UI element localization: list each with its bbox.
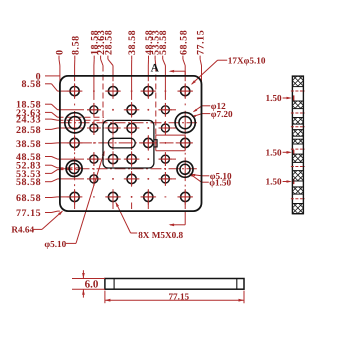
svg-text:17Xφ5.10: 17Xφ5.10 [228, 55, 266, 65]
svg-text:8.58: 8.58 [70, 35, 81, 55]
svg-text:1.50: 1.50 [266, 148, 282, 158]
svg-text:φ7.20: φ7.20 [211, 109, 233, 119]
svg-text:1.50: 1.50 [266, 177, 282, 187]
svg-text:77.15: 77.15 [16, 208, 41, 219]
svg-text:A: A [151, 62, 160, 74]
svg-text:φ1.50: φ1.50 [209, 177, 231, 187]
svg-text:77.15: 77.15 [196, 30, 207, 55]
svg-text:38.58: 38.58 [127, 30, 138, 55]
svg-text:φ5.10: φ5.10 [44, 239, 66, 249]
svg-text:R4.64: R4.64 [11, 225, 34, 235]
svg-text:68.58: 68.58 [178, 30, 189, 55]
svg-text:6.0: 6.0 [85, 278, 99, 290]
svg-text:38.58: 38.58 [16, 139, 41, 150]
svg-text:0: 0 [55, 49, 66, 55]
svg-text:77.15: 77.15 [168, 291, 189, 301]
svg-text:58.58: 58.58 [16, 177, 41, 188]
svg-text:1.50: 1.50 [266, 93, 282, 103]
svg-text:8X M5X0.8: 8X M5X0.8 [138, 230, 183, 240]
svg-text:68.58: 68.58 [16, 193, 41, 204]
svg-text:28.58: 28.58 [16, 125, 41, 136]
svg-text:28.58: 28.58 [103, 30, 114, 55]
svg-text:58.58: 58.58 [158, 30, 169, 55]
svg-text:8.58: 8.58 [21, 79, 41, 90]
